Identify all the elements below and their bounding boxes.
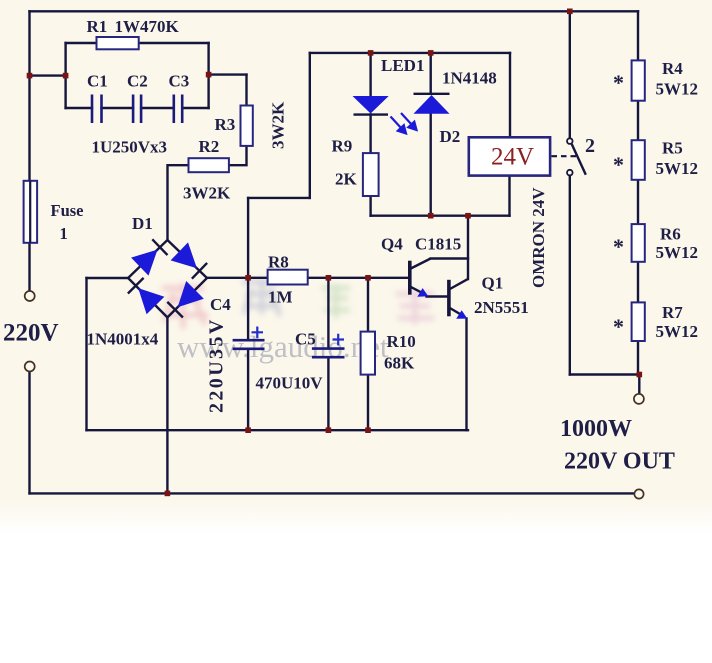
wire R9 bottom lead [369, 196, 371, 216]
resistor R1 box [97, 37, 139, 49]
wire switch output down [569, 176, 571, 375]
terminal 220V output top [634, 394, 644, 404]
svg-text:220U35V: 220U35V [206, 317, 228, 413]
resistor R9 box [363, 153, 379, 196]
wire R1 right lead [139, 42, 209, 44]
wire emitter-return rail under LED/D2 [371, 214, 468, 216]
resistor R10 box [361, 332, 375, 375]
wire riser horizontal to LED rail [248, 197, 310, 199]
LED LED1 emission arrow 2 [401, 113, 417, 130]
svg-text:*: * [613, 70, 624, 95]
bridge rectifier D1 outline [128, 240, 207, 317]
svg-text:3W2K: 3W2K [269, 101, 288, 149]
capacitor C5 plates [312, 349, 345, 358]
wire C4 top lead [247, 278, 249, 339]
bridge D1 cathode tick lower-left [128, 278, 144, 294]
svg-text:220V: 220V [3, 320, 59, 347]
bridge D1 diode lower-left [138, 288, 164, 314]
switch S pole top contact [567, 138, 573, 144]
wire top bus [30, 10, 639, 12]
resistor R4 box [632, 60, 645, 100]
resistor R7 box [632, 302, 645, 341]
svg-text:1M: 1M [268, 288, 293, 307]
resistor R3 box [241, 106, 253, 146]
svg-text:5W12: 5W12 [656, 322, 699, 341]
bridge D1 cathode tick upper-left [152, 239, 167, 255]
svg-text:1W470K: 1W470K [115, 17, 180, 36]
svg-text:470U10V: 470U10V [256, 374, 324, 393]
watermark: blurred pink-purple character blob [396, 290, 434, 324]
svg-text:Fuse: Fuse [51, 201, 84, 220]
svg-text:2: 2 [585, 135, 595, 157]
wire D2 top lead [430, 53, 432, 94]
wire bottom bus [30, 492, 635, 494]
relay switch dashed actuation link [552, 155, 579, 157]
transistor Q4 emitter arrowhead [417, 288, 428, 297]
transistor Q4 emitter stroke [410, 286, 424, 293]
wire Q1 emitter down to ground bus [465, 319, 467, 431]
svg-text:*: * [613, 152, 624, 177]
watermark: blurred blue-gray character blob [242, 278, 280, 316]
terminal 220V input bottom [25, 362, 35, 372]
svg-text:3W2K: 3W2K [183, 184, 231, 203]
wire C1-C2 link [102, 107, 134, 109]
junction LED rail / D2 [428, 50, 434, 56]
wire R1/C3 right riser [207, 43, 209, 108]
capacitor C2 plates [133, 95, 141, 124]
wire C3 right lead [182, 107, 208, 109]
wire relay return to rail junction [468, 214, 510, 216]
wire C-chain left lead [66, 107, 92, 109]
junction DC node / C4 riser [245, 275, 251, 281]
wire R5-R6 link [637, 180, 639, 224]
svg-text:1U250Vx3: 1U250Vx3 [92, 138, 168, 157]
svg-text:R8: R8 [268, 253, 289, 272]
wire switch output horizontal to R7 node [570, 373, 640, 375]
wire R3 top lead [245, 75, 247, 106]
wire Q4-Q1 base link [427, 295, 448, 297]
wire C4 riser up [247, 198, 249, 278]
junction DC node / R10 [365, 275, 371, 281]
svg-text:Q4: Q4 [381, 235, 403, 254]
wire C5 top lead [327, 278, 329, 347]
transistor Q4 collector stroke [410, 259, 431, 270]
switch S blade [572, 144, 586, 175]
svg-text:Q1: Q1 [482, 274, 504, 293]
bridge D1 diode upper-right [171, 242, 197, 268]
capacitor C1 plates [92, 95, 102, 124]
wire R6-R7 link [637, 262, 639, 303]
wire relay top lead [509, 53, 511, 137]
junction ground bus / C4 [245, 427, 251, 433]
bridge D1 diode upper-left [131, 250, 157, 276]
junction return rail / relay-collector line [465, 213, 471, 219]
junction top bus / switch [567, 9, 573, 15]
junction left bus / R1 loop [27, 73, 33, 79]
resistor R5 box [632, 140, 645, 180]
svg-text:R10: R10 [387, 332, 416, 351]
wire R8 output to Q4 base [308, 277, 409, 279]
bridge D1 diode lower-right [178, 281, 204, 307]
junction R7 / switch wire [637, 372, 643, 378]
resistor R8 box [268, 270, 308, 285]
wire lower-left vertical from 220V terminal to bottom bus [28, 372, 30, 494]
svg-text:C1815: C1815 [415, 235, 461, 254]
svg-text:*: * [613, 314, 624, 339]
wire R1 left lead [66, 42, 97, 44]
wire R4 chain top lead [637, 11, 639, 60]
wire node to R3 branch [209, 73, 247, 75]
transistor Q1 base bar [447, 280, 451, 317]
svg-text:220V OUT: 220V OUT [564, 449, 675, 475]
wire D1 right DC lead to R8 [207, 277, 268, 279]
resistor R2 box [189, 158, 229, 172]
svg-text:1N4001x4: 1N4001x4 [87, 330, 159, 349]
svg-text:D1: D1 [132, 214, 153, 233]
wire C2-C3 link [141, 107, 174, 109]
transistor Q1 emitter stroke [449, 308, 463, 316]
svg-text:1: 1 [60, 224, 68, 243]
wire D2 bottom lead [430, 114, 432, 216]
wire C5 bottom lead [327, 359, 329, 431]
wire R10 bottom lead [367, 375, 369, 431]
wire rail junction down to collectors [467, 216, 469, 279]
junction return rail / D2 [428, 213, 434, 219]
wire R10 top lead [367, 278, 369, 332]
svg-text:2N5551: 2N5551 [474, 298, 529, 317]
svg-text:C2: C2 [127, 72, 148, 91]
capacitor C4 polarity plus [252, 327, 264, 339]
svg-text:C1: C1 [87, 72, 108, 91]
diode D2 cathode bar [414, 93, 450, 95]
junction R1 loop right node to R3 [206, 72, 212, 78]
wire LED1 anode lead [369, 53, 371, 96]
wire D1 left AC lead [87, 277, 129, 279]
svg-text:*: * [613, 234, 624, 259]
LED LED1 triangle [353, 96, 389, 114]
wire D1 bottom lead to bottom bus [166, 317, 168, 493]
capacitor C4 plates [233, 340, 265, 349]
svg-text:1N4148: 1N4148 [442, 69, 497, 88]
wire LED1 cathode to R9 [369, 114, 371, 153]
LED LED1 emission arrow 1 [391, 117, 407, 134]
junction ground bus / C5 [326, 427, 332, 433]
svg-text:5W12: 5W12 [656, 80, 699, 99]
svg-text:R6: R6 [660, 225, 681, 244]
wire ground bus under caps [87, 429, 469, 431]
svg-text:R2: R2 [199, 137, 220, 156]
junction R1 loop left [63, 73, 69, 79]
switch S pole bottom contact [567, 170, 573, 176]
svg-text:24V: 24V [491, 144, 534, 171]
svg-text:5W12: 5W12 [656, 243, 699, 262]
wire relay coil bottom pin down [508, 176, 510, 216]
svg-text:C3: C3 [169, 72, 190, 91]
svg-text:1000W: 1000W [560, 416, 632, 442]
wire switch common from top bus [569, 11, 571, 138]
wire output terminal stub [638, 375, 640, 394]
junction LED rail / LED1 [368, 50, 374, 56]
wire left vertical from top bus to fuse [28, 11, 30, 181]
terminal 220V output bottom [634, 489, 643, 498]
svg-text:LED1: LED1 [381, 56, 424, 75]
svg-text:R3: R3 [215, 115, 236, 134]
watermark: blurred pink character blob [162, 283, 208, 329]
bridge D1 cathode tick upper-right [192, 263, 207, 279]
svg-text:5W12: 5W12 [656, 159, 699, 178]
resistor R6 box [632, 224, 645, 262]
wire R7 bottom lead [637, 341, 639, 375]
svg-text:68K: 68K [384, 354, 415, 373]
transistor Q1 collector stroke [449, 279, 468, 290]
svg-text:R4: R4 [662, 59, 683, 78]
wire LED top rail [310, 52, 510, 54]
wire R4-R5 link [637, 101, 639, 141]
junction bottom bus / D1 [165, 491, 171, 497]
svg-text:OMRON 24V: OMRON 24V [529, 187, 548, 288]
svg-text:C5: C5 [295, 330, 316, 349]
relay K1 coil box [469, 137, 550, 175]
svg-text:R9: R9 [332, 137, 353, 156]
wire R2 left lead to D1 riser [168, 165, 189, 240]
wire LED rail riser [309, 53, 311, 198]
capacitor C3 plates [174, 95, 182, 124]
svg-text:C4: C4 [210, 295, 231, 314]
capacitor C5 polarity plus [333, 334, 345, 346]
bridge D1 cathode tick lower-right [167, 302, 183, 318]
wire R1 left riser [64, 43, 66, 108]
svg-text:R7: R7 [662, 303, 683, 322]
wire R3 bottom lead [229, 146, 247, 165]
LED LED1 cathode bar [354, 113, 389, 115]
fuse Fuse1 box [24, 181, 37, 243]
wire left DC rail down [85, 278, 87, 430]
terminal 220V input top [25, 291, 35, 301]
wire Q4 collector horizontal [431, 257, 468, 259]
junction ground bus / R10 [365, 427, 371, 433]
fuse Fuse1 internal wire [29, 181, 31, 243]
transistor Q1 emitter arrowhead [456, 310, 467, 319]
wire fuse to terminal [28, 243, 30, 291]
svg-text:2K: 2K [335, 170, 358, 189]
wire C4 bottom lead [247, 350, 249, 430]
svg-text:D2: D2 [440, 127, 461, 146]
junction DC node / C5 [326, 275, 332, 281]
svg-text:R1: R1 [87, 17, 108, 36]
svg-text:R5: R5 [662, 139, 683, 158]
transistor Q4 base bar [408, 261, 412, 295]
watermark: blurred green character blob [322, 284, 350, 318]
diode D2 triangle [414, 95, 450, 114]
wire R1 loop stub from left bus [30, 74, 66, 76]
